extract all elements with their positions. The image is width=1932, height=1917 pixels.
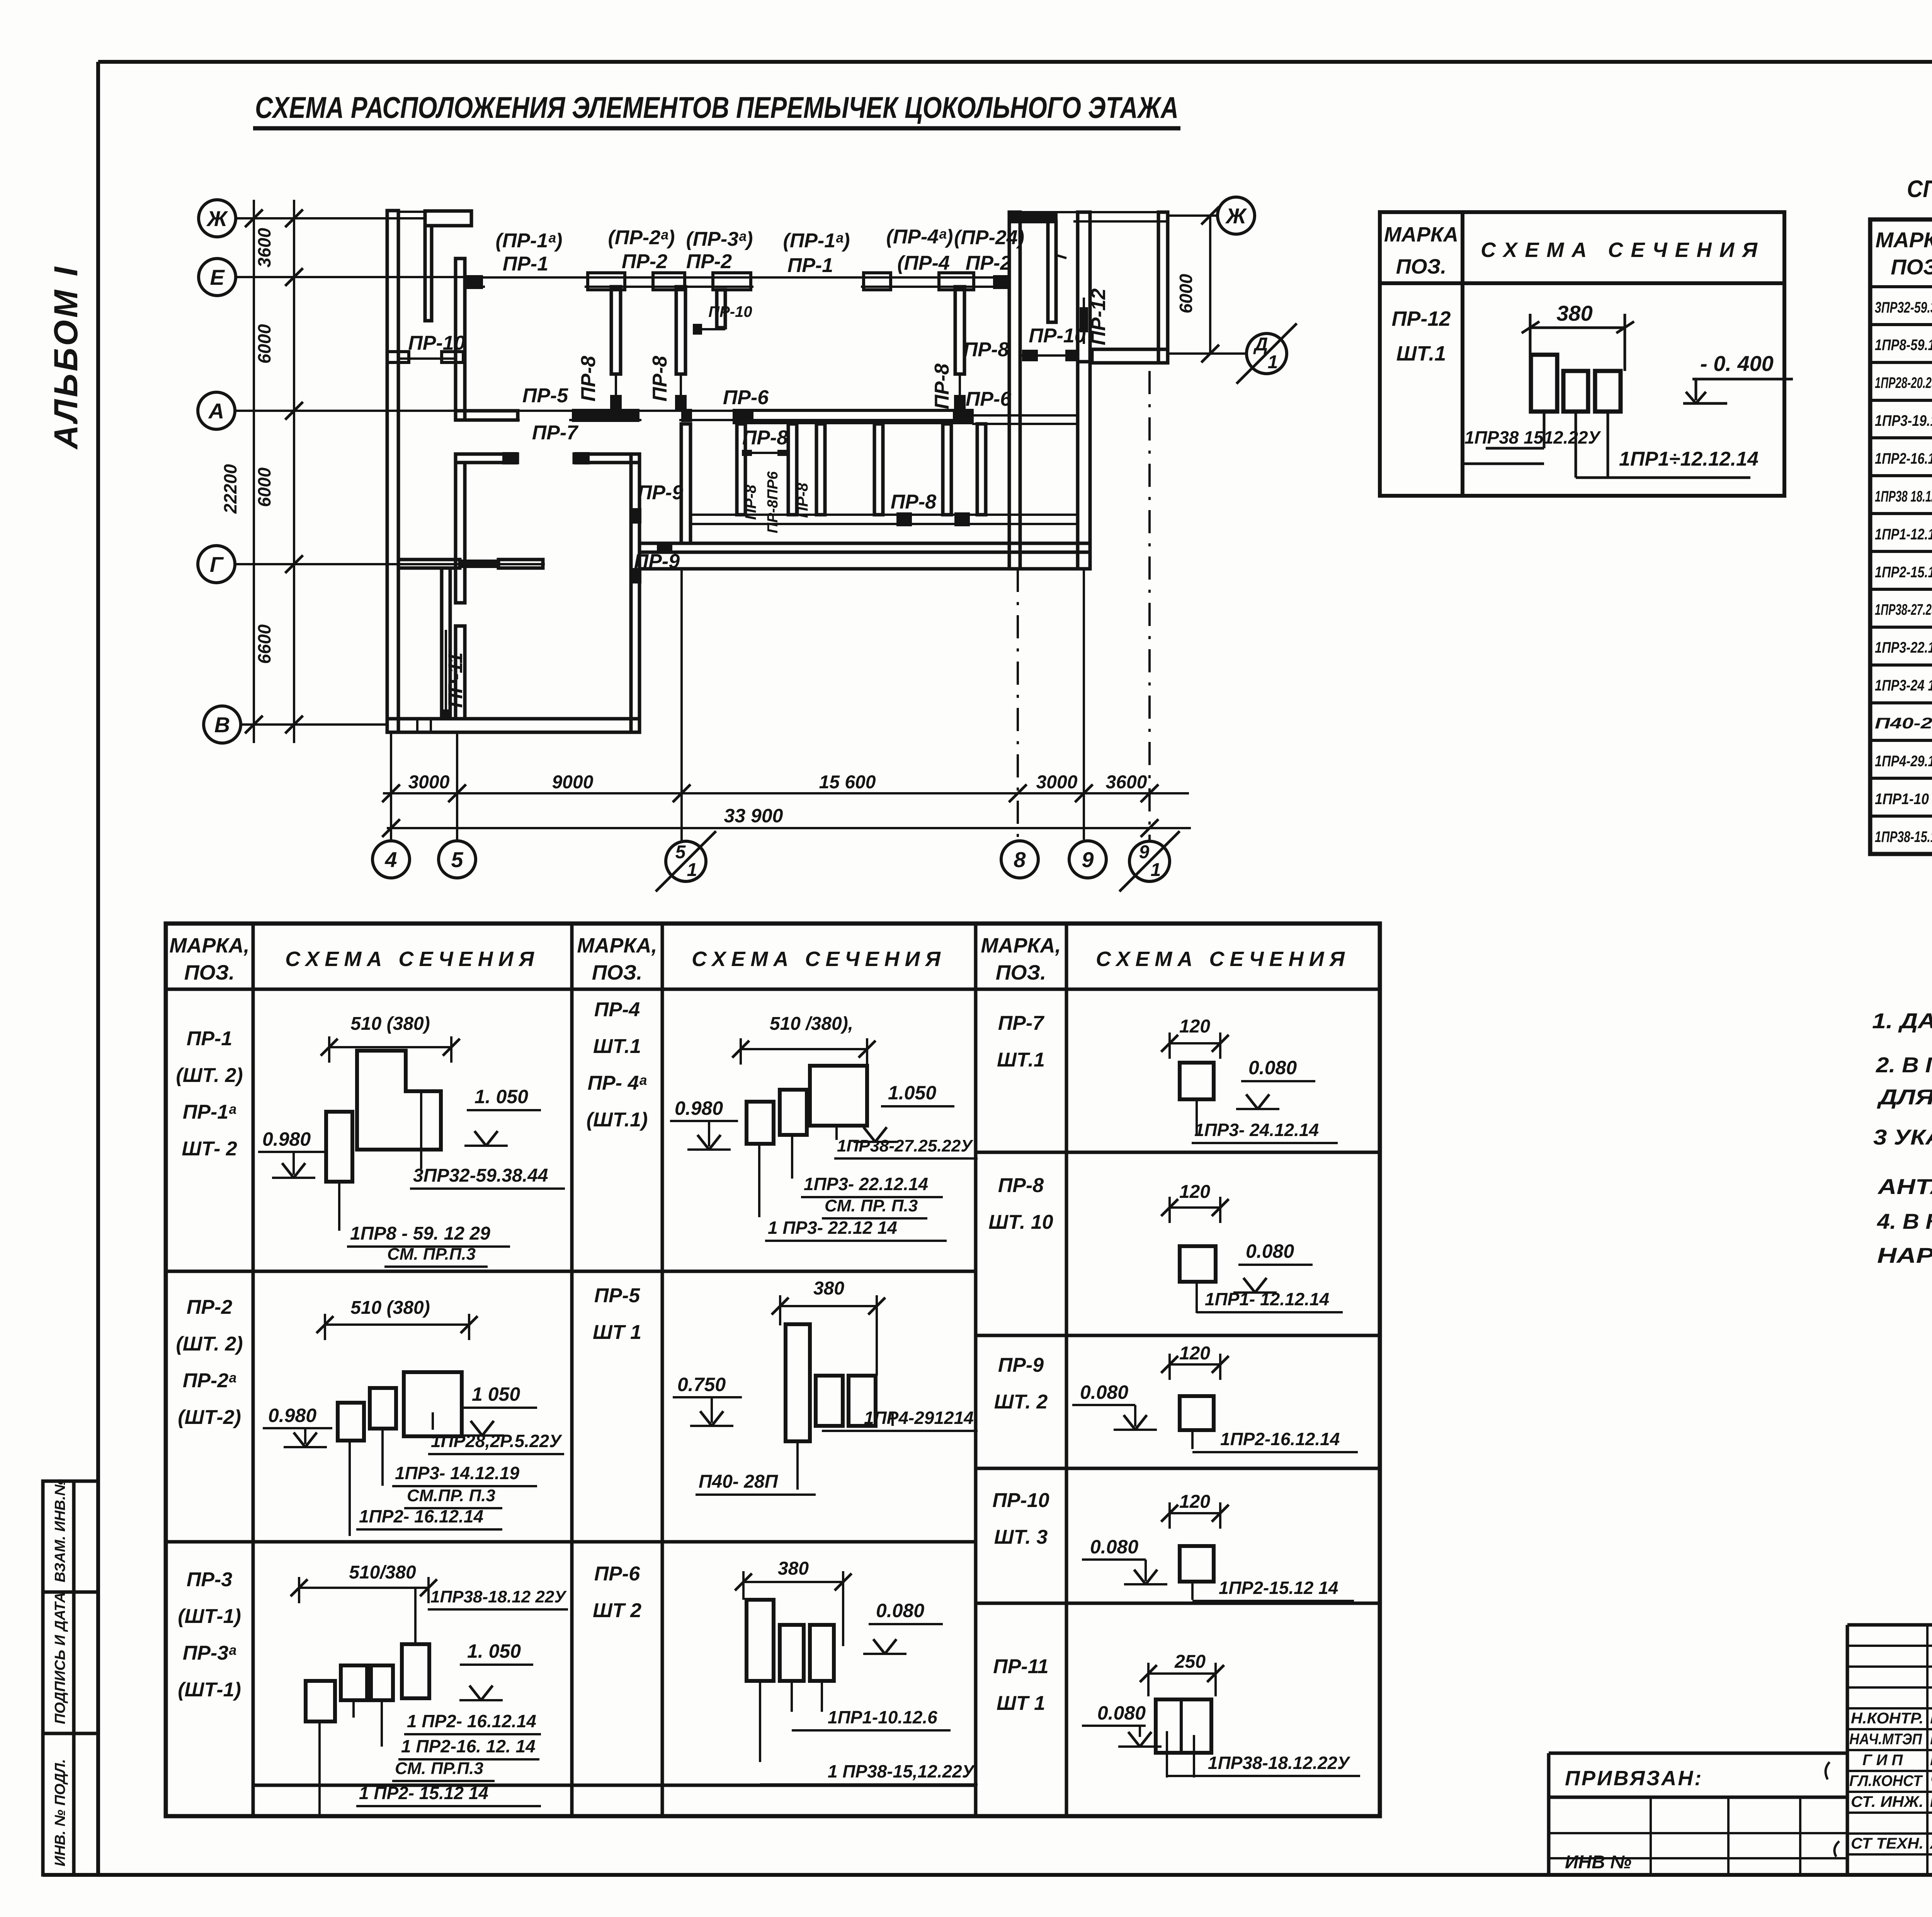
svg-text:1ПР38 1512.22У: 1ПР38 1512.22У [1464,427,1602,447]
svg-text:ПР-6: ПР-6 [966,388,1012,410]
svg-text:9: 9 [1082,847,1094,872]
svg-text:9000: 9000 [552,772,594,793]
svg-text:ШТ. 2: ШТ. 2 [994,1391,1048,1413]
svg-text:1: 1 [687,860,697,880]
svg-text:5: 5 [675,842,686,862]
svg-text:3000: 3000 [1036,772,1078,793]
svg-text:ШТ- 2: ШТ- 2 [182,1138,237,1160]
svg-text:1ПР3-19.12. 9: 1ПР3-19.12. 9 [1875,412,1932,429]
svg-text:МАРКА,: МАРКА, [981,934,1061,957]
svg-text:5: 5 [451,847,463,872]
svg-text:1 ПР3- 22.12 14: 1 ПР3- 22.12 14 [768,1218,897,1238]
svg-text:АЛЬБОМ I: АЛЬБОМ I [48,265,85,450]
svg-text:1.050: 1.050 [888,1082,936,1104]
svg-text:2. В ГРАФЕ ПРИМЕЧАНИЕ ДАНО: 2. В ГРАФЕ ПРИМЕЧАНИЕ ДАНО КОЛИЧЕСТВО ПЕ… [1876,1053,1932,1077]
svg-text:СТ ТЕХН.: СТ ТЕХН. [1851,1835,1923,1852]
svg-text:33 900: 33 900 [724,805,783,827]
svg-text:ПР-1: ПР-1 [503,253,548,275]
svg-text:1 ПР2-16. 12. 14: 1 ПР2-16. 12. 14 [401,1736,536,1756]
svg-text:ШТ.1: ШТ.1 [1396,342,1446,365]
svg-text:1ПР2-15.12.14: 1ПР2-15.12.14 [1875,564,1932,581]
svg-text:БЕГАНСКАЯ: БЕГАНСКАЯ [1930,1731,1932,1748]
svg-text:1ПР1-10.12.6: 1ПР1-10.12.6 [828,1707,937,1727]
svg-text:ПР-6: ПР-6 [594,1563,640,1585]
svg-text:0.980: 0.980 [262,1128,311,1150]
svg-text:(ШТ-1): (ШТ-1) [178,1605,241,1628]
svg-text:ПОЗ.: ПОЗ. [592,961,643,984]
svg-text:ПР-9: ПР-9 [998,1354,1044,1376]
svg-text:1ПР2-16.12.14: 1ПР2-16.12.14 [1875,450,1932,467]
svg-text:ЧЕРНЕЦКИЙ: ЧЕРНЕЦКИЙ [1930,1771,1932,1789]
svg-text:0.750: 0.750 [677,1374,726,1395]
svg-text:ПР-8: ПР-8 [649,356,671,401]
svg-text:ПР-8: ПР-8 [742,427,788,449]
svg-text:1ПР1-12.12.14: 1ПР1-12.12.14 [1875,526,1932,543]
svg-text:6000: 6000 [254,467,274,507]
svg-text:510 /380),: 510 /380), [770,1014,853,1034]
svg-text:ПР-5: ПР-5 [522,384,568,407]
svg-text:3ПР32-59.38.44: 3ПР32-59.38.44 [1875,299,1932,316]
svg-text:ПОЗ.: ПОЗ. [1396,255,1447,278]
svg-text:1ПР3- 22.12.14: 1ПР3- 22.12.14 [804,1174,928,1194]
svg-text:1ПР8 - 59. 12 29: 1ПР8 - 59. 12 29 [350,1223,490,1244]
svg-text:1ПР2- 16.12.14: 1ПР2- 16.12.14 [359,1506,483,1526]
svg-text:(ПР-3ᵃ): (ПР-3ᵃ) [686,228,753,250]
svg-text:9: 9 [1139,842,1150,862]
svg-text:0.080: 0.080 [1080,1381,1128,1403]
svg-text:ПР-4: ПР-4 [594,998,640,1021]
svg-text:ПР-10: ПР-10 [1029,325,1085,347]
svg-text:0.980: 0.980 [268,1405,316,1426]
svg-text:(ПР-1ᵃ): (ПР-1ᵃ) [783,230,850,252]
svg-text:ПР-8: ПР-8 [931,364,953,409]
svg-text:120: 120 [1179,1016,1210,1037]
svg-text:ПР-8: ПР-8 [998,1174,1044,1197]
svg-text:ШТ.1: ШТ.1 [997,1049,1045,1071]
svg-text:МАРКА,: МАРКА, [577,934,657,957]
svg-text:0.080: 0.080 [876,1600,924,1621]
svg-text:ПР-7: ПР-7 [532,422,578,444]
svg-text:0.080: 0.080 [1246,1240,1294,1262]
svg-text:0.980: 0.980 [675,1097,723,1119]
svg-text:ПР-2: ПР-2 [686,250,732,273]
svg-text:22200: 22200 [220,464,240,514]
svg-text:1. 050: 1. 050 [467,1640,521,1662]
svg-text:ПР-11: ПР-11 [993,1655,1048,1678]
svg-text:1 ПР38-15,12.22У: 1 ПР38-15,12.22У [828,1761,976,1781]
svg-text:ПР-8: ПР-8 [577,356,600,401]
svg-text:(ШТ-1): (ШТ-1) [178,1679,241,1701]
svg-text:1. ДАННЫЙ ЛИСТ СМ. СОВМЕС: 1. ДАННЫЙ ЛИСТ СМ. СОВМЕСТНО С ЛИСТОМ АС… [1872,1009,1932,1033]
svg-text:1 ПР2- 15.12 14: 1 ПР2- 15.12 14 [359,1783,488,1803]
svg-text:(ШТ-2): (ШТ-2) [178,1406,241,1429]
svg-text:ПОЗ.: ПОЗ. [996,961,1046,984]
svg-text:1ПР3- 14.12.19: 1ПР3- 14.12.19 [395,1463,520,1483]
svg-text:1ПР38 18.12 22У: 1ПР38 18.12 22У [1875,488,1932,505]
svg-text:0.080: 0.080 [1248,1057,1297,1078]
svg-text:250: 250 [1174,1652,1206,1672]
svg-text:ПР-10: ПР-10 [408,332,465,354]
svg-text:СМ. ПР. П.3: СМ. ПР. П.3 [825,1196,918,1215]
svg-text:Н.КОНТР.: Н.КОНТР. [1851,1710,1923,1727]
svg-text:(ШТ. 2): (ШТ. 2) [176,1333,243,1355]
svg-text:Ж: Ж [1225,204,1247,228]
svg-text:1ПР2-16.12.14: 1ПР2-16.12.14 [1220,1429,1340,1449]
svg-text:(ШТ. 2): (ШТ. 2) [176,1064,243,1087]
svg-text:СХЕМА СЕЧЕНИЯ: СХЕМА СЕЧЕНИЯ [1481,238,1765,262]
svg-text:ПР-7: ПР-7 [998,1012,1044,1034]
svg-text:1ПР38-18.12.22У: 1ПР38-18.12.22У [1208,1753,1351,1773]
svg-text:ПОДПИСЬ И ДАТА: ПОДПИСЬ И ДАТА [52,1592,68,1724]
svg-text:510 (380): 510 (380) [350,1014,430,1034]
svg-text:СПЕЦИФИКАЦИЯ ЭЛЕМЕНТОВ К ВЕДОМ: СПЕЦИФИКАЦИЯ ЭЛЕМЕНТОВ К ВЕДОМОСТИ ПЕРЕМ… [1907,176,1932,202]
svg-text:ПР- 4ᵃ: ПР- 4ᵃ [588,1072,647,1094]
svg-text:3ПР32-59.38.44: 3ПР32-59.38.44 [413,1165,548,1186]
svg-text:(ПР-1ᵃ): (ПР-1ᵃ) [496,230,563,252]
svg-text:ШТ 1: ШТ 1 [997,1692,1045,1715]
svg-text:1 ПР2- 16.12.14: 1 ПР2- 16.12.14 [407,1711,536,1731]
svg-text:- 0. 400: - 0. 400 [1700,351,1774,376]
svg-text:1ПР38-27.25.22У: 1ПР38-27.25.22У [837,1136,973,1155]
svg-text:ПОЗ.: ПОЗ. [1891,255,1932,279]
svg-text:ПР-8ПР6: ПР-8ПР6 [765,471,781,533]
svg-text:ПР-8: ПР-8 [963,338,1009,361]
svg-text:510/380: 510/380 [349,1562,416,1583]
svg-text:ПР-2ᵃ: ПР-2ᵃ [183,1369,236,1392]
svg-text:1 050: 1 050 [472,1383,520,1405]
svg-text:Е: Е [210,265,225,289]
svg-text:ПР-12: ПР-12 [1087,288,1110,345]
svg-text:НАРУЖНЫХ СТЕН Б = 380 ММ.: НАРУЖНЫХ СТЕН Б = 380 ММ. [1877,1243,1932,1267]
svg-text:1ПР4-29.12.14: 1ПР4-29.12.14 [1875,753,1932,770]
svg-text:ПР-9: ПР-9 [638,481,683,504]
svg-text:ГЛ.КОНСТ: ГЛ.КОНСТ [1849,1772,1923,1789]
svg-text:Г И П: Г И П [1862,1752,1903,1769]
svg-text:ШЕЛЕВИЛЯ: ШЕЛЕВИЛЯ [1930,1752,1932,1769]
svg-text:ПР-2: ПР-2 [187,1296,232,1318]
svg-text:ПР-6: ПР-6 [723,386,769,409]
svg-text:ПР-3: ПР-3 [187,1568,232,1591]
svg-text:ПР-9: ПР-9 [634,550,680,573]
svg-text:1ПР28-20.25.22У: 1ПР28-20.25.22У [1875,374,1932,391]
svg-text:СХЕМА СЕЧЕНИЯ: СХЕМА СЕЧЕНИЯ [1096,947,1350,971]
svg-text:1ПР1- 12.12.14: 1ПР1- 12.12.14 [1205,1289,1329,1309]
svg-text:380: 380 [1556,301,1592,325]
svg-text:В: В [214,713,230,737]
svg-text:ПР-1: ПР-1 [787,254,833,277]
svg-text:ШТ.1: ШТ.1 [593,1035,641,1058]
svg-text:ИНВ. № ПОДЛ.: ИНВ. № ПОДЛ. [52,1759,68,1866]
svg-text:ПР-12: ПР-12 [1392,307,1451,330]
svg-text:МАРКА,: МАРКА, [169,934,249,957]
svg-text:БУХАРИНА: БУХАРИНА [1930,1710,1932,1727]
svg-text:(ПР-2ᵃ): (ПР-2ᵃ) [608,226,675,249]
svg-text:П40- 28П: П40- 28П [699,1471,779,1492]
svg-text:ПР-3ᵃ: ПР-3ᵃ [183,1642,236,1664]
svg-text:ПОЗ.: ПОЗ. [184,961,235,984]
svg-text:1ПР8-59.12.29: 1ПР8-59.12.29 [1875,337,1932,354]
svg-text:0.080: 0.080 [1097,1702,1146,1724]
svg-text:НАЧ.МТЭП: НАЧ.МТЭП [1849,1731,1922,1748]
svg-text:(ШТ.1): (ШТ.1) [587,1109,648,1131]
svg-text:ПР-2: ПР-2 [966,252,1011,274]
svg-text:СХЕМА СЕЧЕНИЯ: СХЕМА СЕЧЕНИЯ [692,947,946,971]
svg-text:1ПР1÷12.12.14: 1ПР1÷12.12.14 [1619,448,1759,470]
svg-text:ШТ. 3: ШТ. 3 [994,1526,1048,1548]
svg-text:ЖАГОЛКИНА: ЖАГОЛКИНА [1929,1835,1932,1852]
svg-text:А: А [208,399,224,423]
svg-text:Г: Г [210,552,224,577]
svg-text:ПР-2: ПР-2 [622,250,667,273]
svg-text:ПР-10: ПР-10 [708,303,752,320]
svg-text:ВЗАМ. ИНВ.№: ВЗАМ. ИНВ.№ [52,1479,68,1582]
svg-text:МАРКА: МАРКА [1384,223,1458,246]
svg-text:СМ. ПР.П.3: СМ. ПР.П.3 [395,1759,483,1778]
svg-text:Д: Д [1253,334,1268,355]
svg-text:6000: 6000 [254,324,274,364]
svg-text:120: 120 [1179,1492,1210,1512]
svg-text:6000: 6000 [1176,274,1196,313]
svg-text:АНТА СТЕН Б = 380 АНУЛИРУЮТС: АНТА СТЕН Б = 380 АНУЛИРУЮТСЯ. [1877,1174,1932,1199]
svg-text:СХЕМА СЕЧЕНИЯ: СХЕМА СЕЧЕНИЯ [285,947,539,971]
svg-text:6600: 6600 [254,624,274,664]
svg-text:(ПР-4: (ПР-4 [897,252,950,274]
svg-text:ДЛЯ ВАРИАНТА СО СТЕНАМИ Б = 3: ДЛЯ ВАРИАНТА СО СТЕНАМИ Б = 380ММ. [1877,1085,1932,1109]
svg-text:1ПР28,2Р.5.22У: 1ПР28,2Р.5.22У [431,1431,563,1451]
svg-text:1ПР4-291214: 1ПР4-291214 [864,1408,974,1428]
svg-text:(ПР-24): (ПР-24) [954,226,1024,249]
svg-text:8: 8 [1014,847,1026,872]
svg-text:1ПР38-27.25.22У: 1ПР38-27.25.22У [1875,601,1932,618]
svg-text:1ПР1-10 12 6: 1ПР1-10 12 6 [1875,791,1932,808]
svg-text:ИНВ №: ИНВ № [1565,1852,1631,1873]
svg-text:1ПР3-22.12.14: 1ПР3-22.12.14 [1875,639,1932,656]
svg-text:ПРИВЯЗАН:: ПРИВЯЗАН: [1565,1767,1703,1790]
svg-text:1. 050: 1. 050 [474,1086,528,1107]
svg-text:СМ.ПР. П.3: СМ.ПР. П.3 [407,1486,495,1505]
svg-text:ПР-5: ПР-5 [594,1284,640,1307]
svg-text:ПР-11: ПР-11 [444,652,467,708]
svg-text:МАРКА,: МАРКА, [1876,228,1932,252]
svg-text:ПР-8: ПР-8 [891,491,936,513]
svg-text:ПР-8: ПР-8 [794,483,811,518]
svg-text:120: 120 [1179,1182,1210,1202]
svg-text:1: 1 [1151,860,1161,880]
svg-text:1ПР3- 24.12.14: 1ПР3- 24.12.14 [1194,1120,1319,1140]
svg-text:3000: 3000 [408,772,450,793]
svg-text:15 600: 15 600 [819,772,876,793]
svg-text:510 (380): 510 (380) [350,1298,430,1318]
svg-text:СХЕМА РАСПОЛОЖЕНИЯ ЭЛЕМЕНТОВ П: СХЕМА РАСПОЛОЖЕНИЯ ЭЛЕМЕНТОВ ПЕРЕМЫЧЕК Ц… [255,90,1179,124]
svg-text:4. В КРУГЛЫХ СКОБКАХ ОБОЗНА: 4. В КРУГЛЫХ СКОБКАХ ОБОЗНАЧЕНЫ ПРОЕМЫ П… [1877,1209,1932,1233]
svg-text:3600: 3600 [1106,772,1147,793]
svg-text:3 УКАЗАННЫЕ НА СХЕМЕ СЕЧЕН: 3 УКАЗАННЫЕ НА СХЕМЕ СЕЧЕНИЯ ПЕРЕМЫЧЕК Д… [1873,1125,1932,1149]
svg-text:ВОЛЬФЛЕНОК: ВОЛЬФЛЕНОК [1930,1793,1932,1810]
svg-text:0.080: 0.080 [1090,1536,1138,1558]
svg-text:ШТ. 10: ШТ. 10 [988,1211,1053,1233]
svg-text:ШТ 1: ШТ 1 [593,1321,641,1344]
svg-text:ПР-10: ПР-10 [992,1489,1049,1512]
svg-text:ПР-8: ПР-8 [742,485,759,520]
svg-text:380: 380 [778,1558,809,1579]
svg-text:П40-28П: П40-28П [1875,715,1932,732]
svg-text:1ПР38-15.12.22: 1ПР38-15.12.22 [1875,828,1932,845]
svg-text:1ПР2-15.12 14: 1ПР2-15.12 14 [1219,1578,1338,1598]
svg-text:1: 1 [1268,352,1278,373]
svg-text:3600: 3600 [254,228,274,267]
svg-text:Ж: Ж [206,206,228,231]
svg-text:(ПР-4ᵃ): (ПР-4ᵃ) [886,226,953,248]
svg-text:ПР-1: ПР-1 [187,1027,232,1050]
svg-text:ПР-1ᵃ: ПР-1ᵃ [183,1101,236,1123]
svg-text:4: 4 [384,847,397,872]
svg-text:ШТ 2: ШТ 2 [593,1599,641,1622]
svg-text:120: 120 [1179,1343,1210,1364]
svg-text:СТ. ИНЖ.: СТ. ИНЖ. [1851,1793,1923,1810]
svg-text:380: 380 [813,1278,844,1299]
svg-text:1ПР38-18.12 22У: 1ПР38-18.12 22У [430,1587,567,1606]
svg-text:1ПР3-24 12.14: 1ПР3-24 12.14 [1875,677,1932,694]
svg-text:СМ. ПР.П.3: СМ. ПР.П.3 [387,1245,476,1264]
